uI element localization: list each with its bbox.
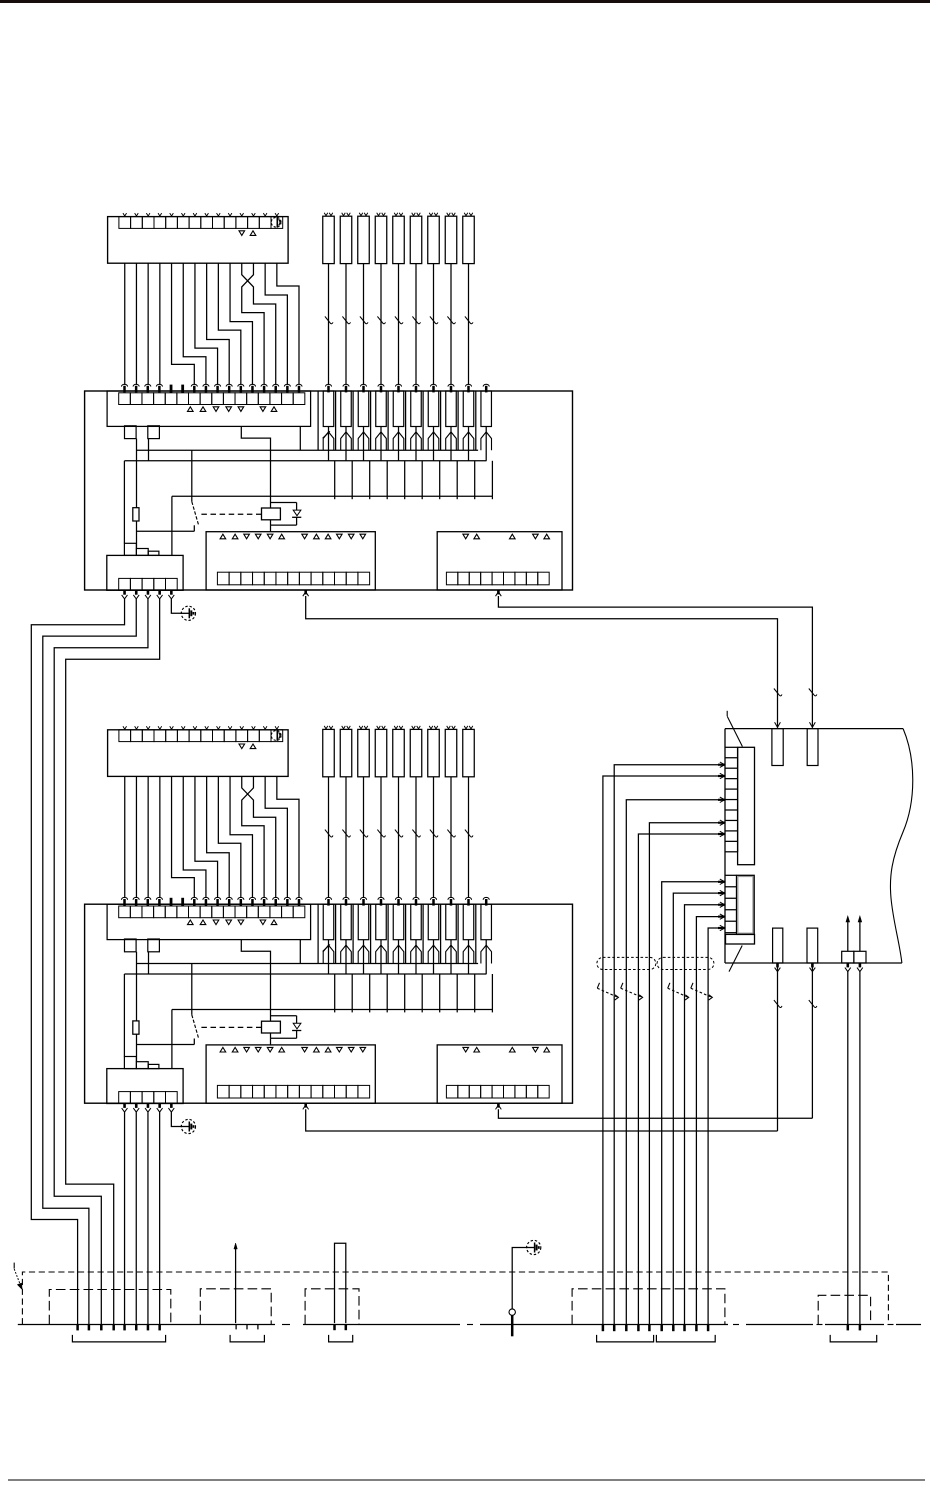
splice tick ECU signal 8: [683, 1325, 686, 1332]
splice tick C pin3: [100, 1325, 103, 1331]
harness grommet oval 1: [597, 957, 656, 969]
wire strip T2' to ECU bottom pin B: [498, 1109, 812, 1118]
wire connector C pin4 to body harness: [66, 599, 160, 1325]
breaker mark on ECU bottom pin A wire: [774, 1000, 779, 1007]
chassis ground connector circle: [509, 1309, 515, 1315]
ECU signal 10 entry arrow: [718, 927, 725, 929]
ECU pin B entry arrow: [810, 722, 816, 727]
ECU corner lead (top): [726, 711, 728, 716]
ECU pin A entry arrow: [775, 722, 781, 727]
splice tick ECU signal 4: [648, 1325, 651, 1332]
ECU signal 6 entry arrow: [718, 881, 725, 883]
sub-harness dashed box 5: [818, 1295, 870, 1324]
ECU bottom pin B cavity: [807, 928, 818, 963]
breaker mark on T2-ECU wire: [809, 689, 814, 696]
splice tick ECU signal 1: [613, 1325, 616, 1332]
wire ECU aux pin 2 to harness: [859, 963, 862, 967]
harness grommet oval 2: [657, 957, 714, 969]
harness enclosure pointer: [13, 1263, 15, 1269]
ECU bottom pin A exit arrow: [776, 963, 779, 967]
ECU lower pin block: [737, 875, 755, 934]
splice tick ECU signal 9: [695, 1325, 698, 1332]
splice tick C' pin4: [158, 1325, 161, 1331]
ECU auxiliary 2-pin connector: [842, 951, 854, 963]
chassis ground wire mid: [512, 1248, 527, 1309]
wire ECU signal 6: [662, 882, 720, 1325]
harness assembly (lower): [85, 726, 573, 1134]
ECU aux pin 1 internal wire: [847, 919, 849, 952]
breaker mark on ECU bottom pin B wire: [809, 1000, 814, 1007]
sub-harness dashed box 3: [305, 1289, 359, 1325]
ECU signal 5 entry arrow: [718, 833, 725, 835]
splice tick aux pin 2: [859, 1325, 862, 1331]
wire ECU bottom pin A drop: [777, 963, 779, 1131]
ECU signal 7 entry arrow: [718, 892, 725, 894]
ECU lower pin block liner: [738, 877, 753, 934]
splice tick ECU signal 3: [625, 1325, 628, 1332]
splice tick C pin2: [88, 1325, 91, 1331]
body harness bus line: [18, 1324, 921, 1326]
connector 2 pin tick: [235, 1324, 237, 1329]
splice tick ECU signal 2: [602, 1325, 605, 1332]
harness enclosure dashed box: [22, 1272, 888, 1324]
page header bar: [0, 0, 930, 3]
double-pole switch mark 1: [597, 983, 599, 988]
ECU lower pin cavities: [726, 875, 737, 932]
wire connector C' pin2 to body harness: [135, 1112, 137, 1324]
connector bracket 6: [830, 1335, 877, 1342]
wire ECU signal 8: [685, 905, 720, 1325]
splice tick aux pin 1: [847, 1325, 850, 1331]
connector bracket 5: [656, 1335, 715, 1342]
wire connector C pin1 to body harness: [31, 599, 124, 1325]
splice tick C pin4: [112, 1325, 115, 1331]
wire connector C pin2 to body harness: [43, 599, 136, 1325]
ECU upper pin block: [738, 747, 755, 864]
wire ECU signal 7: [673, 893, 719, 1324]
harness assembly (upper): [85, 213, 573, 621]
ECU torn edge: [890, 729, 912, 963]
splice tick C' pin2: [135, 1325, 138, 1331]
ECU upper pin cavities: [726, 747, 738, 852]
ECU signal 9 entry arrow: [718, 915, 725, 917]
ground symbol mid: [527, 1240, 541, 1254]
antenna wire connector 2: [235, 1245, 237, 1323]
ECU signal 4 entry arrow: [718, 822, 725, 824]
splice tick C pin1: [76, 1325, 79, 1331]
sub-harness dashed box 4: [572, 1289, 725, 1325]
wire connector C pin3 to body harness: [54, 599, 148, 1325]
connector 3 pin ticks: [333, 1325, 336, 1331]
ECU signal 1 entry arrow: [718, 764, 725, 766]
wire ECU aux pin 1 to harness: [846, 963, 849, 967]
breaker mark on T1-ECU wire: [774, 689, 779, 696]
ECU bottom pin B exit arrow: [811, 963, 814, 967]
connector 2 pin tick: [257, 1324, 259, 1329]
ECU top pin B cavity: [807, 729, 818, 766]
connector bracket 2: [230, 1335, 264, 1342]
ECU corner lead (bottom): [729, 946, 742, 972]
connector bracket 4: [597, 1335, 654, 1342]
ECU signal 2 entry arrow: [718, 775, 725, 777]
chassis ground bolt wire: [511, 1315, 514, 1336]
connector 2 pin tick: [246, 1324, 248, 1329]
wire ECU signal 9: [696, 917, 719, 1325]
wire ECU signal 2: [603, 776, 719, 1325]
page footer rule: [8, 1479, 925, 1481]
ECU signal 8 entry arrow: [718, 904, 725, 906]
ECU bottom pin A cavity: [773, 928, 783, 963]
wire ECU signal 10: [708, 928, 719, 1325]
sub-harness dashed box 1: [49, 1290, 171, 1325]
sub-harness dashed box 2: [200, 1289, 271, 1325]
wire ECU signal 1: [614, 765, 719, 1325]
double-pole switch mark 4: [691, 983, 693, 988]
wire connector C' pin4 to body harness: [159, 1112, 161, 1324]
splice tick ECU signal 7: [672, 1325, 675, 1332]
wire ECU bottom pin B drop: [811, 963, 813, 1118]
double-pole switch mark 3: [668, 983, 670, 988]
wire ECU signal 3: [626, 800, 719, 1325]
wire connector C' pin3 to body harness: [147, 1112, 149, 1324]
splice tick C' pin3: [147, 1325, 150, 1331]
ECU signal 3 entry arrow: [718, 799, 725, 801]
wire ECU signal 5: [638, 834, 719, 1325]
shielded cable connector 3: [335, 1243, 346, 1323]
connector bracket 1: [72, 1335, 165, 1342]
connector bracket 3: [329, 1335, 353, 1342]
wire connector C' pin1 to body harness: [124, 1112, 126, 1324]
wire strip T1' to ECU bottom pin A: [306, 1109, 778, 1131]
splice tick ECU signal 6: [660, 1325, 663, 1332]
splice tick C' pin1: [123, 1325, 126, 1331]
ECU lower pin block foot: [726, 934, 755, 944]
wire strip T1 to ECU pin A: [306, 596, 778, 728]
wire ECU signal 4: [649, 823, 719, 1325]
splice tick ECU signal 10: [707, 1325, 710, 1332]
splice tick ECU signal 5: [637, 1325, 640, 1332]
ECU top pin A cavity: [772, 729, 783, 766]
ECU aux pin 2 internal wire: [859, 919, 861, 952]
wire strip T2 to ECU pin B: [498, 596, 812, 728]
double-pole switch mark 2: [621, 983, 623, 988]
ECU body outline: [725, 728, 903, 730]
